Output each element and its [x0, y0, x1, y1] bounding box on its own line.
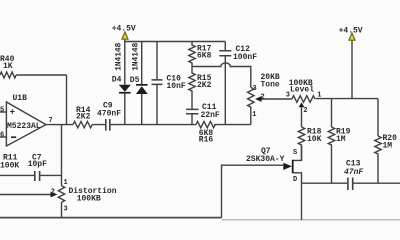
diode D4 body	[119, 85, 131, 94]
wire level rail	[316, 98, 378, 100]
svg-text:10pF: 10pF	[28, 160, 47, 169]
wire pot bottom to ground rail	[61, 202, 63, 217]
wire tone feed with hop over C12 lead	[192, 63, 251, 88]
svg-text:3: 3	[253, 85, 257, 93]
ground rail right	[222, 219, 400, 221]
wire R19 tap	[331, 99, 333, 127]
svg-text:S: S	[293, 149, 297, 157]
resistor R40	[0, 72, 16, 78]
potentiometer 100KB Level	[292, 96, 315, 103]
wire node vertical to distortion pot	[61, 125, 63, 186]
svg-text:100nF: 100nF	[233, 53, 257, 62]
svg-text:1M: 1M	[383, 141, 393, 150]
svg-text:D5: D5	[130, 76, 140, 85]
svg-text:R16: R16	[199, 135, 214, 144]
svg-text:10nF: 10nF	[167, 82, 186, 91]
svg-text:100K: 100K	[0, 161, 19, 170]
transistor Q7 leads	[293, 146, 301, 184]
svg-text:2K2: 2K2	[197, 81, 212, 90]
wire gate ground L	[222, 165, 284, 217]
wire tone wiper to level	[262, 98, 293, 100]
wire R40 to feedback corner	[16, 74, 66, 76]
svg-text:2: 2	[261, 93, 265, 101]
svg-text:+4.5V: +4.5V	[339, 27, 363, 36]
diode D4	[124, 39, 126, 124]
capacitor C9	[106, 119, 110, 131]
svg-text:3: 3	[286, 92, 290, 100]
wire +4.5V right drop	[351, 40, 353, 98]
wire drain net	[302, 183, 400, 220]
svg-text:Level: Level	[290, 85, 314, 94]
capacitor C7	[35, 171, 40, 181]
svg-text:7: 7	[49, 117, 53, 125]
capacitor C11	[186, 109, 199, 113]
svg-text:M5223AL: M5223AL	[7, 122, 41, 131]
wire R20 corner	[377, 99, 379, 136]
svg-text:Tone: Tone	[261, 80, 280, 89]
svg-text:5: 5	[0, 107, 4, 115]
svg-text:U1B: U1B	[13, 94, 28, 103]
svg-text:D4: D4	[112, 76, 122, 85]
power symbol +4.5V left	[122, 32, 128, 39]
wire output net y=124.6	[46, 124, 251, 126]
svg-text:6: 6	[0, 132, 4, 140]
svg-text:6K8: 6K8	[197, 52, 212, 61]
svg-text:1N4148: 1N4148	[116, 42, 124, 70]
svg-text:10K: 10K	[307, 135, 322, 144]
svg-text:1N4148: 1N4148	[132, 42, 140, 70]
wiper arrow Level pot	[299, 102, 305, 107]
svg-text:1K: 1K	[3, 62, 13, 71]
op-amp minus	[11, 136, 16, 138]
svg-text:100KB: 100KB	[77, 195, 101, 204]
resistor R15	[189, 67, 195, 110]
resistor R18	[298, 127, 304, 160]
ground rail left	[0, 217, 222, 219]
svg-text:2K2: 2K2	[76, 113, 91, 122]
svg-text:1: 1	[317, 92, 321, 100]
resistor R19	[328, 127, 334, 183]
svg-text:1M: 1M	[336, 135, 346, 144]
capacitor C12	[224, 42, 226, 125]
svg-text:3: 3	[64, 206, 68, 214]
svg-text:D: D	[293, 176, 297, 184]
resistor R20	[375, 136, 381, 183]
wire pin 6 stub	[0, 136, 6, 138]
resistor R14	[73, 121, 92, 127]
wire R11 C7 net	[0, 174, 62, 176]
svg-text:+: +	[10, 108, 15, 118]
wire wiper net	[0, 194, 51, 196]
svg-text:1: 1	[252, 111, 256, 119]
svg-text:22nF: 22nF	[201, 111, 220, 120]
wire feedback vertical	[66, 75, 68, 125]
wire level wiper down	[301, 107, 303, 127]
svg-text:470nF: 470nF	[97, 110, 121, 119]
svg-text:2: 2	[51, 189, 55, 197]
resistor R17	[189, 42, 195, 67]
wiper arrow Tone pot	[255, 96, 262, 102]
power symbol +4.5V right	[349, 33, 355, 40]
transistor Q7 symbol	[283, 160, 293, 173]
svg-text:2SK30A-Y: 2SK30A-Y	[246, 155, 285, 164]
potentiometer 20KB Tone	[248, 87, 254, 124]
capacitor C13	[348, 178, 353, 191]
resistor R16	[196, 121, 215, 127]
svg-text:+4.5V: +4.5V	[112, 24, 136, 33]
diode D5 body	[136, 84, 148, 94]
svg-text:2: 2	[303, 107, 307, 115]
svg-text:47nF: 47nF	[344, 168, 363, 177]
op-amp U1B	[6, 102, 46, 146]
wire pin 5 stub	[0, 111, 6, 113]
svg-text:1: 1	[64, 179, 68, 187]
power rail +4.5V top	[125, 41, 226, 43]
potentiometer Distortion 100KB	[58, 186, 64, 202]
diode D5	[141, 42, 143, 125]
wiper arrow Distortion pot	[51, 192, 58, 198]
capacitor C10	[156, 42, 158, 125]
